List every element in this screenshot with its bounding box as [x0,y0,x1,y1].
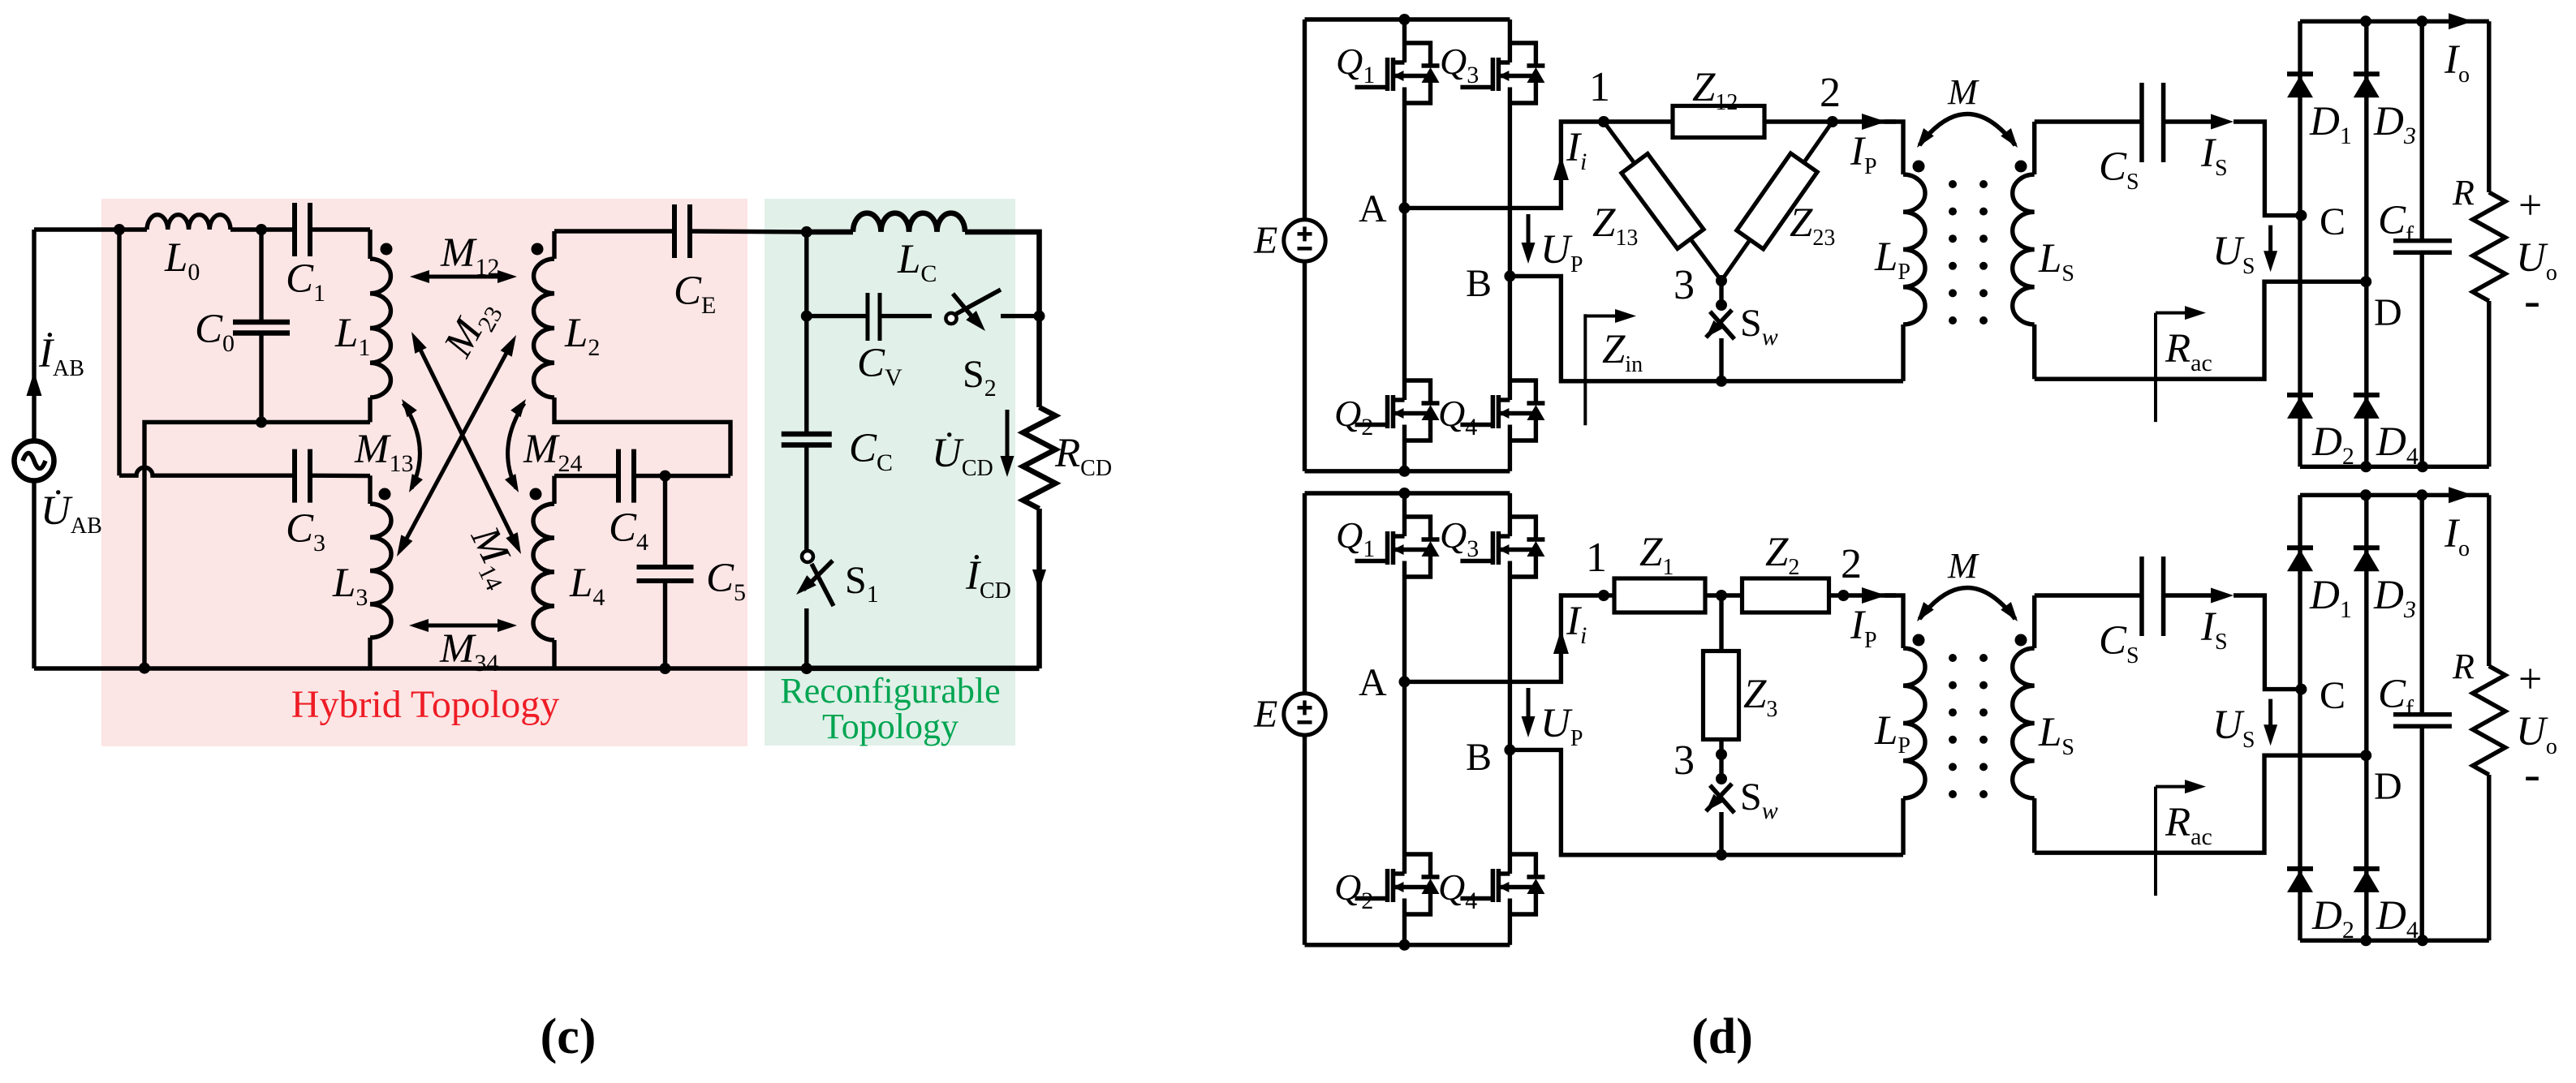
svg-text:Topology: Topology [822,707,958,746]
svg-text:M: M [1947,72,1979,112]
svg-text:3: 3 [1674,262,1695,308]
svg-text:Hybrid Topology: Hybrid Topology [291,683,559,726]
svg-text:(c): (c) [541,1009,597,1064]
svg-text:M: M [1947,546,1979,586]
svg-text:2: 2 [1820,70,1841,116]
svg-text:C: C [2320,200,2346,243]
svg-text:1: 1 [1589,64,1610,110]
svg-text:D: D [2374,765,2402,808]
svg-text:R: R [2452,173,2475,213]
svg-text:Reconfigurable: Reconfigurable [780,671,1000,711]
svg-text:2: 2 [1841,541,1862,587]
svg-text:D: D [2374,291,2402,334]
svg-text:-: - [2524,747,2540,801]
svg-text:3: 3 [1674,737,1695,784]
svg-text:A: A [1359,187,1387,230]
svg-text:B: B [1466,262,1492,305]
svg-text:B: B [1466,736,1492,779]
svg-text:+: + [2518,183,2542,229]
svg-text:E: E [1253,693,1277,736]
svg-text:(d): (d) [1691,1009,1753,1064]
svg-text:C: C [2320,674,2346,717]
svg-text:R: R [2452,647,2475,686]
svg-text:E: E [1253,219,1277,262]
svg-text:1: 1 [1586,535,1607,581]
svg-text:A: A [1359,661,1387,704]
svg-text:+: + [2518,656,2542,703]
svg-text:-: - [2524,273,2540,327]
